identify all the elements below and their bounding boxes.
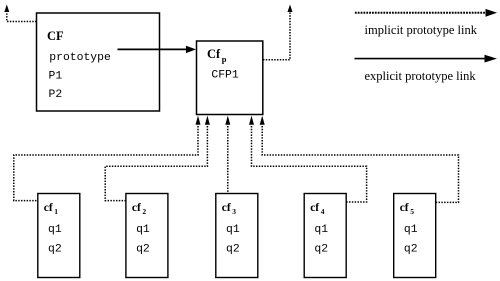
svg-text:q1: q1 bbox=[226, 224, 240, 236]
explicit prototype arrow CF to Cfp bbox=[118, 48, 188, 50]
svg-text:q2: q2 bbox=[404, 244, 418, 256]
box cf1 bbox=[38, 194, 80, 278]
box cf2 bbox=[126, 194, 168, 278]
svg-text:q1: q1 bbox=[136, 224, 150, 236]
svg-text:q1: q1 bbox=[314, 224, 328, 236]
implicit prototype arrow from Cfp up-right bbox=[263, 12, 290, 60]
svg-text:P1: P1 bbox=[49, 71, 63, 83]
implicit link cf5 to Cfp bbox=[262, 126, 458, 202]
svg-text:5: 5 bbox=[410, 207, 414, 216]
svg-text:P2: P2 bbox=[49, 89, 63, 101]
box Cfp bbox=[197, 41, 263, 115]
svg-text:q2: q2 bbox=[136, 244, 150, 256]
svg-text:p: p bbox=[222, 54, 227, 64]
svg-text:3: 3 bbox=[232, 207, 236, 216]
implicit link cf2 to Cfp bbox=[105, 126, 207, 201]
svg-text:q2: q2 bbox=[314, 244, 328, 256]
implicit link cf3 to Cfp bbox=[227, 126, 229, 194]
svg-text:2: 2 bbox=[142, 207, 146, 216]
svg-text:1: 1 bbox=[54, 207, 58, 216]
svg-text:cf: cf bbox=[400, 202, 409, 214]
box cf5 bbox=[394, 194, 436, 278]
svg-text:cf: cf bbox=[44, 202, 53, 214]
svg-text:q1: q1 bbox=[48, 224, 62, 236]
svg-text:CF: CF bbox=[47, 29, 64, 43]
box CF bbox=[37, 13, 160, 111]
svg-text:implicit prototype link: implicit prototype link bbox=[365, 23, 478, 37]
svg-text:q2: q2 bbox=[226, 244, 240, 256]
svg-text:4: 4 bbox=[321, 207, 325, 216]
svg-text:cf: cf bbox=[132, 202, 141, 214]
svg-text:cf: cf bbox=[222, 202, 231, 214]
legend solid arrow bbox=[355, 58, 487, 60]
svg-text:q2: q2 bbox=[48, 244, 62, 256]
implicit prototype arrow from CF up-left bbox=[7, 12, 37, 22]
implicit link cf1 to Cfp bbox=[14, 126, 198, 201]
box cf3 bbox=[216, 194, 258, 278]
svg-text:prototype: prototype bbox=[49, 52, 111, 64]
svg-text:Cf: Cf bbox=[207, 47, 221, 61]
svg-text:CFP1: CFP1 bbox=[211, 69, 239, 81]
implicit link cf4 to Cfp bbox=[252, 126, 367, 202]
svg-text:explicit prototype link: explicit prototype link bbox=[365, 69, 477, 83]
box cf4 bbox=[304, 194, 346, 278]
svg-text:q1: q1 bbox=[404, 224, 418, 236]
svg-text:cf: cf bbox=[310, 202, 319, 214]
legend dotted arrow bbox=[355, 12, 486, 14]
